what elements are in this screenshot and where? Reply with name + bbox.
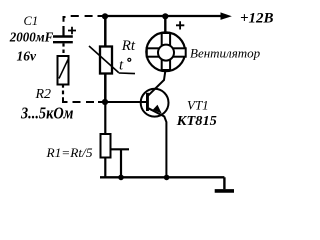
wire: +12V rail from node A to arrow	[105, 15, 222, 17]
wire: top dashed bus segment toward node A	[71, 15, 104, 17]
wire: dashed corner piece at bottom of R2 branch	[63, 97, 68, 102]
svg-text:C1: C1	[24, 14, 39, 28]
resistor R2 bottom lead	[62, 85, 64, 88]
wire: dashed horizontal segment to node B	[73, 101, 104, 103]
capacitor C1 plates	[53, 37, 73, 43]
fan blade bottom	[162, 59, 170, 70]
wire: fan to transistor VT1 collector	[148, 71, 165, 96]
transistor VT1 body circle	[141, 89, 169, 117]
capacitor C1 bottom lead	[62, 43, 64, 46]
svg-text:16v: 16v	[17, 48, 38, 63]
svg-text:t: t	[119, 57, 124, 73]
wire: node B to transistor base	[105, 101, 147, 103]
fan motor (Ventilyator) outer circle	[146, 32, 185, 71]
svg-text:+12В: +12В	[240, 11, 274, 27]
wire: ground drop	[223, 177, 225, 189]
svg-text:КТ815: КТ815	[176, 114, 217, 129]
node: elbow junction dot on ground rail	[118, 175, 124, 181]
svg-text:R2: R2	[35, 87, 52, 102]
wire: dashed link from node A down-left to capacitor C1 (corner piece)	[64, 17, 66, 22]
fan blade left	[147, 48, 160, 56]
node: fan branch junction dot on +12V rail	[162, 13, 168, 19]
wire: node B down to resistor R1	[104, 102, 106, 134]
wire: elbow vertical down to ground rail	[120, 149, 122, 177]
wire: stub from R1 right side (elbow horizontal)	[111, 148, 130, 150]
resistor R1 body	[101, 134, 111, 158]
label t-degree ring	[128, 58, 131, 61]
svg-text:R1=Rt/5: R1=Rt/5	[45, 145, 93, 160]
wire: dashed link capacitor C1 to resistor R2	[62, 50, 64, 54]
resistor R1 bottom lead to ground rail	[104, 158, 106, 178]
node A junction dot (Rt / +12V rail tap)	[102, 13, 108, 19]
thermistor Rt diagonal foot	[119, 72, 135, 75]
resistor R2 diagonal mark	[59, 60, 68, 79]
node B junction dot (Rt / R2 / R1 / base)	[102, 99, 108, 105]
wire: dashed link from R2 down to node B (vertical dash)	[62, 91, 64, 95]
ground symbol bar	[215, 189, 234, 193]
thermistor Rt diagonal stroke	[89, 46, 119, 73]
svg-text:Вентилятор: Вентилятор	[190, 46, 261, 61]
wire: ground rail	[100, 176, 224, 178]
capacitor C1 top lead	[62, 26, 64, 36]
transistor VT1 emitter arrowhead	[153, 105, 162, 114]
thermistor Rt top lead from node A	[104, 16, 107, 47]
svg-text:Rt: Rt	[121, 38, 136, 54]
fan motor plus polarity sign	[176, 21, 184, 29]
resistor R2 body	[58, 56, 69, 85]
transistor VT1 base bar	[146, 93, 149, 111]
transistor VT1 emitter line	[149, 108, 167, 177]
thermistor Rt body	[100, 47, 112, 74]
capacitor C1 polarity plus sign	[68, 27, 76, 34]
fan blade right	[173, 48, 186, 56]
fan hub circle	[158, 45, 174, 61]
svg-text:3...5кОм: 3...5кОм	[20, 103, 73, 122]
fan blade top	[162, 33, 170, 45]
svg-text:2000мF: 2000мF	[9, 30, 53, 45]
fan motor lead from +12V rail	[164, 16, 166, 32]
svg-text:VT1: VT1	[187, 98, 209, 113]
+12V supply arrowhead	[221, 12, 232, 20]
thermistor Rt bottom lead to node B	[104, 74, 107, 103]
node: emitter junction dot on ground rail	[164, 175, 170, 181]
